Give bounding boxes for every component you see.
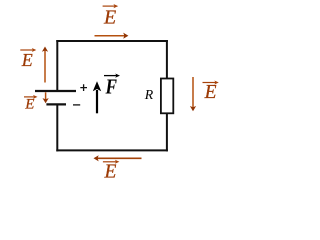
field arrow left (upward): [44, 50, 46, 83]
vector mark over E left: [20, 49, 34, 51]
field arrow battery (downward): [45, 92, 47, 100]
svg-text:E: E: [24, 97, 34, 113]
svg-text:E: E: [104, 162, 117, 183]
svg-text:E: E: [204, 82, 217, 103]
wire left lower: [56, 104, 58, 151]
battery plate positive: [35, 90, 76, 92]
vector mark over E right: [203, 82, 218, 84]
vector mark over E bottom: [103, 161, 118, 163]
plus sign: [80, 84, 87, 91]
minus sign: [73, 104, 80, 106]
wire right upper: [166, 40, 168, 80]
svg-text:R: R: [144, 87, 154, 102]
svg-text:E: E: [21, 50, 33, 70]
field arrow top (rightward): [95, 35, 126, 37]
force arrow F (upward, black): [96, 90, 98, 113]
wire left upper: [56, 40, 58, 91]
wire bottom: [56, 149, 168, 151]
vector mark over E top: [103, 5, 117, 7]
svg-text:F: F: [105, 76, 118, 99]
wire top: [56, 40, 168, 42]
vector mark over F: [104, 75, 118, 77]
battery plate negative: [46, 103, 66, 105]
wire right lower: [166, 113, 168, 151]
field arrow bottom (leftward): [97, 157, 142, 159]
resistor R: [161, 79, 173, 114]
field arrow right (downward): [192, 77, 194, 108]
svg-text:E: E: [103, 6, 116, 28]
vector mark over E battery: [24, 96, 36, 98]
